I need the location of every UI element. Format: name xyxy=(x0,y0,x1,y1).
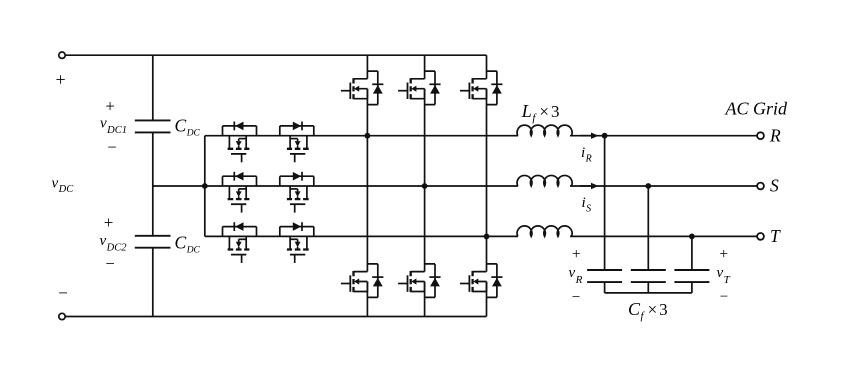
wire DC-link rail lower xyxy=(152,248,154,317)
terminal DC positive xyxy=(59,52,65,58)
terminal grid S xyxy=(757,183,764,190)
transistor bottom MOSFET leg T xyxy=(460,271,487,292)
diode series of bidir switch right, phase T xyxy=(280,222,314,236)
transistor bidir switch left, phase T xyxy=(228,236,250,263)
svg-text:CDC: CDC xyxy=(175,233,201,256)
diode antiparallel of top MOSFET leg S xyxy=(425,71,441,105)
wire phase leg R xyxy=(366,55,368,316)
svg-text:iS: iS xyxy=(582,195,592,215)
transistor bidir switch right, phase T xyxy=(287,236,309,263)
inductor L_f phase T xyxy=(517,226,572,237)
node leg T output junction xyxy=(484,234,490,240)
wire phase leg S xyxy=(424,55,426,316)
svg-text:vDC: vDC xyxy=(52,175,75,195)
wire phase T (inductor to grid) xyxy=(570,235,757,237)
node midpoint junction xyxy=(202,183,208,189)
svg-text:+: + xyxy=(56,70,66,90)
wire DC midpoint xyxy=(153,185,205,187)
svg-text:S: S xyxy=(770,176,779,196)
transistor top MOSFET leg S xyxy=(398,78,425,99)
svg-text:−: − xyxy=(107,137,116,156)
svg-text:−: − xyxy=(572,290,580,306)
wire top DC rail xyxy=(66,54,487,56)
svg-text:+: + xyxy=(105,96,115,115)
svg-text:+: + xyxy=(719,246,728,263)
svg-text:vR: vR xyxy=(569,265,583,286)
wire cap branch phase S xyxy=(647,186,649,270)
transistor top MOSFET leg T xyxy=(460,78,487,99)
node cap tap phase S xyxy=(645,183,651,189)
svg-text:Lf×3: Lf×3 xyxy=(521,101,560,124)
current arrow i_R xyxy=(580,133,599,139)
terminal grid T xyxy=(757,233,764,240)
svg-text:CDC: CDC xyxy=(175,116,201,139)
wire phase row T (midpoint bus to inductor) xyxy=(205,235,518,237)
capacitor C_f phase S xyxy=(631,270,666,282)
diode antiparallel of bottom MOSFET leg S xyxy=(425,264,441,298)
svg-text:+: + xyxy=(104,213,114,232)
svg-text:vT: vT xyxy=(717,265,731,286)
diode series of bidir switch left, phase S xyxy=(223,172,257,186)
svg-text:−: − xyxy=(720,289,728,305)
diode antiparallel of bottom MOSFET leg R xyxy=(367,264,383,298)
transistor bottom MOSFET leg S xyxy=(398,271,425,292)
svg-text:−: − xyxy=(58,283,68,302)
diode antiparallel of bottom MOSFET leg T xyxy=(487,264,503,298)
wire filter cap common bus xyxy=(605,292,692,294)
svg-text:AC Grid: AC Grid xyxy=(725,98,789,118)
svg-text:vDC2: vDC2 xyxy=(100,233,128,254)
transistor bidir switch left, phase S xyxy=(228,186,250,213)
capacitor C_DC upper xyxy=(135,120,171,132)
svg-text:−: − xyxy=(106,254,115,273)
diode series of bidir switch right, phase S xyxy=(280,172,314,186)
svg-text:iR: iR xyxy=(581,145,592,165)
node leg R output junction xyxy=(365,133,371,139)
wire cap bottom stub phase S xyxy=(647,282,649,293)
wire phase row S (midpoint bus to inductor) xyxy=(205,185,518,187)
inductor L_f phase S xyxy=(517,175,572,186)
svg-text:Cf×3: Cf×3 xyxy=(628,299,668,322)
diode series of bidir switch left, phase R xyxy=(223,122,257,136)
node leg S output junction xyxy=(422,183,428,189)
wire phase S (inductor to grid) xyxy=(570,185,757,187)
transistor top MOSFET leg R xyxy=(341,78,368,99)
capacitor C_f phase R xyxy=(587,270,622,282)
wire phase R (inductor to grid) xyxy=(570,135,757,137)
wire DC-link rail upper xyxy=(152,55,154,120)
diode series of bidir switch left, phase T xyxy=(223,222,257,236)
transistor bottom MOSFET leg R xyxy=(341,271,368,292)
diode antiparallel of top MOSFET leg R xyxy=(367,71,383,105)
inductor L_f phase R xyxy=(517,125,572,136)
current arrow i_S xyxy=(580,183,599,189)
svg-text:+: + xyxy=(572,246,581,263)
wire cap bottom stub phase R xyxy=(604,282,606,293)
wire cap branch phase R xyxy=(604,136,606,270)
transistor bidir switch right, phase R xyxy=(287,136,309,163)
wire bottom DC rail xyxy=(66,316,487,318)
terminal grid R xyxy=(757,132,764,139)
wire cap branch phase T xyxy=(691,236,693,270)
capacitor C_DC lower xyxy=(135,236,171,248)
wire cap bottom stub phase T xyxy=(691,282,693,293)
transistor bidir switch right, phase S xyxy=(287,186,309,213)
node cap tap phase R xyxy=(602,133,608,139)
wire phase row R (midpoint bus to inductor) xyxy=(205,135,518,137)
svg-text:R: R xyxy=(769,125,781,145)
diode series of bidir switch right, phase R xyxy=(280,122,314,136)
node cap tap phase T xyxy=(689,234,695,240)
capacitor C_f phase T xyxy=(674,270,709,282)
svg-text:T: T xyxy=(770,226,781,246)
diode antiparallel of top MOSFET leg T xyxy=(487,71,503,105)
wire DC-link rail middle xyxy=(152,132,154,235)
wire phase leg T xyxy=(486,55,488,316)
wire midpoint vertical bus xyxy=(204,136,206,237)
transistor bidir switch left, phase R xyxy=(228,136,250,163)
svg-text:vDC1: vDC1 xyxy=(100,116,127,137)
terminal DC negative xyxy=(59,313,65,319)
